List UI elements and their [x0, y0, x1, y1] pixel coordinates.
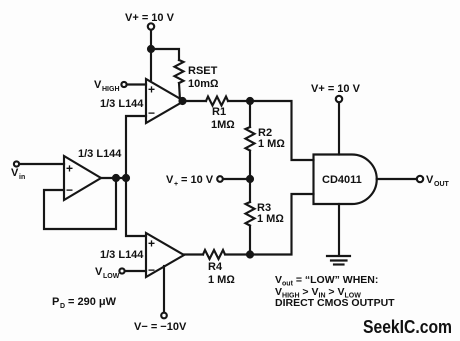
- label PD = 290 uW: [52, 296, 117, 310]
- svg-text:−: −: [66, 183, 73, 197]
- caption line 3: DIRECT CMOS OUTPUT: [275, 297, 395, 309]
- svg-text:+: +: [148, 83, 155, 97]
- wire V_LOW to U3 - input: [125, 270, 146, 272]
- resistor RSET 10mOhm: [175, 60, 220, 100]
- resistor R4 1M: [203, 250, 235, 286]
- watermark SeekIC.com: [363, 316, 452, 337]
- wire node A down to U3 + input: [126, 178, 146, 236]
- svg-text:+: +: [66, 162, 73, 176]
- wire node B to gate input A: [250, 101, 314, 160]
- svg-text:CD4011: CD4011: [322, 174, 362, 186]
- op-amp U3 (1/3 L144, bottom): [146, 233, 184, 277]
- NAND gate U4 CD4011: [314, 155, 377, 205]
- svg-text:1/3 L144: 1/3 L144: [78, 148, 122, 160]
- op-amp U2 (1/3 L144, middle follower): [64, 156, 101, 200]
- resistor R3 1M: [246, 179, 285, 254]
- input terminal V_HIGH: [94, 79, 127, 93]
- wire U2 output: [101, 177, 126, 179]
- junction dot feedback / output: [113, 175, 119, 181]
- wire V+ down to op-amp U1: [150, 30, 152, 80]
- power terminal V+ top: [125, 12, 175, 30]
- power terminal V+ mid: [166, 174, 223, 188]
- svg-text:−: −: [148, 263, 155, 277]
- svg-text:RSET: RSET: [188, 65, 218, 77]
- wire U3 to V- terminal: [163, 266, 165, 312]
- wire junction to RSET top: [151, 49, 179, 60]
- svg-text:OUT: OUT: [434, 181, 450, 188]
- svg-text:= 290 μW: = 290 μW: [68, 296, 117, 308]
- wire V+ right down to gate: [338, 103, 340, 155]
- svg-text:SeekIC.com: SeekIC.com: [363, 316, 452, 337]
- svg-text:V: V: [426, 174, 434, 186]
- op-amp U1 (1/3 L144, top): [146, 79, 184, 123]
- input terminal V_in: [11, 161, 25, 181]
- svg-text:1 MΩ: 1 MΩ: [257, 213, 284, 225]
- svg-text:R1: R1: [212, 106, 226, 118]
- svg-text:LOW: LOW: [103, 273, 120, 280]
- wire node D to gate input B: [250, 194, 314, 255]
- wire gate output: [377, 178, 416, 180]
- svg-text:V+ = 10 V: V+ = 10 V: [125, 12, 175, 24]
- junction dot node A: [123, 175, 129, 181]
- svg-text:1 MΩ: 1 MΩ: [258, 138, 285, 150]
- svg-text:DIRECT CMOS OUTPUT: DIRECT CMOS OUTPUT: [275, 297, 395, 309]
- resistor R2 1M: [246, 101, 286, 179]
- wire R4 to node D: [226, 253, 250, 255]
- junction dot node C: [247, 176, 253, 182]
- ground: [327, 256, 350, 265]
- svg-text:−: −: [148, 106, 155, 120]
- resistor R1 1M: [206, 97, 235, 132]
- svg-text:10mΩ: 10mΩ: [188, 78, 219, 90]
- svg-text:+: +: [148, 237, 155, 251]
- wire U1 output to R1: [184, 100, 206, 102]
- svg-text:V: V: [95, 266, 103, 278]
- junction dot U1 output / RSET: [180, 98, 186, 104]
- junction dot node B: [247, 98, 253, 104]
- power terminal V-: [134, 313, 187, 333]
- wire R1 to node B: [228, 100, 250, 102]
- svg-text:1MΩ: 1MΩ: [211, 119, 235, 131]
- junction dot V+ / RSET: [148, 46, 154, 52]
- svg-text:+: +: [174, 181, 178, 188]
- svg-text:V: V: [11, 167, 19, 179]
- input terminal V_LOW: [95, 266, 125, 280]
- caption line 2: VHIGH > VIN > VLOW: [275, 286, 361, 300]
- wire U3 output to R4: [184, 253, 203, 255]
- junction dot node D: [247, 252, 253, 258]
- svg-text:D: D: [60, 303, 65, 310]
- wire V_HIGH to U1 + input: [127, 83, 146, 85]
- svg-text:V+ = 10 V: V+ = 10 V: [311, 83, 361, 95]
- wire V_in to U2 + input: [20, 163, 65, 165]
- caption line 1: Vout = LOW WHEN:: [275, 274, 378, 288]
- svg-text:P: P: [52, 296, 59, 308]
- svg-text:V: V: [166, 174, 174, 186]
- output terminal V_OUT: [417, 174, 450, 188]
- wire gate to ground: [338, 204, 340, 255]
- svg-text:in: in: [19, 174, 25, 181]
- svg-text:HIGH: HIGH: [102, 86, 120, 93]
- svg-text:V: V: [94, 79, 102, 91]
- svg-text:= 10 V: = 10 V: [181, 174, 214, 186]
- wire V+ mid to node C: [223, 178, 250, 180]
- svg-text:1/3 L144: 1/3 L144: [100, 249, 144, 261]
- wire feedback loop U2: [44, 178, 116, 229]
- svg-text:1 MΩ: 1 MΩ: [208, 274, 235, 286]
- wire U1 - input down to node A: [126, 116, 146, 178]
- power terminal V+ right: [311, 83, 361, 102]
- svg-text:V− = −10V: V− = −10V: [134, 321, 187, 333]
- svg-text:R4: R4: [208, 261, 223, 273]
- svg-text:1/3 L144: 1/3 L144: [100, 98, 144, 110]
